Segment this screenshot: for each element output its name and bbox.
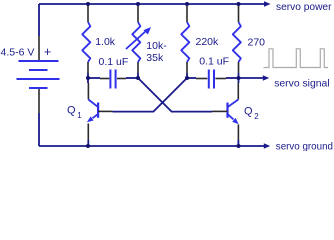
wire: C1 right to node B: [126, 77, 138, 79]
junction dot: rail / pot: [136, 2, 140, 6]
svg-text:Q: Q: [67, 104, 76, 116]
svg-text:+: +: [44, 45, 51, 59]
wire: Q1 emitter to ground rail: [87, 140, 89, 146]
svg-text:2: 2: [254, 112, 259, 121]
svg-text:servo signal: servo signal: [274, 79, 329, 90]
lead: capacitor C2 left pin: [196, 78, 207, 80]
waveform: servo pulse train: [264, 49, 329, 68]
transistor Q2 body: [228, 100, 239, 120]
lead: capacitor C1 right pin: [117, 78, 126, 80]
junction dot: node A: [86, 76, 90, 80]
lead: resistor R2 top pin: [186, 6, 188, 22]
battery B1 plates: [17, 61, 60, 88]
potentiometer 10k-35k zigzag: [132, 22, 140, 62]
lead: Q1 base pin: [98, 110, 112, 112]
arrow: servo power output: [264, 1, 271, 7]
potentiometer wiper arrow: [126, 31, 147, 50]
wire: Q2 emitter to ground rail: [237, 140, 239, 146]
junction dot: rail / R1: [86, 2, 90, 6]
wire: node A down to Q1 collector: [87, 78, 89, 83]
lead: Q1 emitter pin: [87, 124, 89, 141]
wire: node A to C1 left: [88, 77, 100, 79]
wire: battery positive riser: [38, 4, 40, 36]
lead: Q2 emitter pin: [237, 125, 239, 141]
transistor Q1 body: [88, 100, 98, 119]
wire: bottom ground rail: [39, 145, 264, 147]
lead: resistor R3 top pin: [238, 6, 240, 22]
resistor R1 1.0k zigzag: [82, 22, 90, 62]
capacitor C2 plates: [209, 70, 214, 89]
svg-text:270: 270: [248, 37, 266, 49]
wire: top power rail: [39, 3, 265, 5]
resistor R3 270 zigzag: [233, 22, 241, 62]
svg-text:servo ground: servo ground: [276, 141, 333, 151]
svg-text:1: 1: [77, 111, 82, 120]
wire: node C to C2 left: [187, 77, 196, 79]
lead: battery bottom pin: [38, 89, 40, 113]
svg-text:1.0k: 1.0k: [95, 36, 116, 48]
wire: node B cross-coupling diagonal to Q2 base: [138, 78, 212, 112]
svg-text:0.1 uF: 0.1 uF: [99, 56, 129, 68]
lead: potentiometer top pin: [137, 6, 139, 22]
svg-text:servo power: servo power: [276, 2, 332, 13]
wire: node C cross-coupling diagonal to Q1 base: [113, 78, 188, 112]
lead: potentiometer bottom pin: [137, 62, 139, 73]
svg-text:4.5-6 V: 4.5-6 V: [1, 47, 35, 59]
capacitor C1 plates: [110, 70, 115, 89]
lead: battery top pin: [38, 36, 40, 60]
junction dot: node C: [185, 76, 189, 80]
svg-text:35k: 35k: [146, 52, 164, 64]
wire: node D down to Q2 collector: [238, 78, 240, 83]
wire: servo signal tap from node D: [239, 77, 264, 79]
lead: capacitor C2 right pin: [215, 78, 226, 80]
resistor R2 220k zigzag: [181, 22, 189, 62]
transistor Q2 emitter arrowhead: [232, 118, 239, 124]
lead: resistor R1 top pin: [87, 6, 89, 22]
arrow: servo signal output: [263, 75, 269, 81]
svg-text:220k: 220k: [196, 36, 220, 48]
junction dot: ground / Q2 emitter: [237, 144, 241, 148]
svg-text:Q: Q: [244, 106, 253, 118]
lead: resistor R3 bottom pin: [238, 62, 240, 73]
lead: resistor R2 bottom pin: [186, 62, 188, 73]
wire: R3 to node D: [238, 73, 240, 78]
svg-text:0.1 uF: 0.1 uF: [199, 56, 229, 68]
svg-text:10k-: 10k-: [146, 40, 167, 52]
junction dot: rail / R2: [185, 2, 189, 6]
lead: resistor R1 bottom pin: [87, 62, 89, 73]
wire: pot to node B: [137, 73, 139, 78]
junction dot: node B: [136, 76, 140, 80]
wire: R2 to node C: [186, 73, 188, 78]
junction dot: node D: [237, 76, 241, 80]
arrow: servo ground output: [264, 143, 270, 149]
wire: R1 to node A: [87, 73, 89, 78]
lead: Q1 collector pin: [87, 83, 89, 100]
wire: C2 right to node D: [226, 77, 239, 79]
junction dot: rail / R3: [237, 2, 241, 6]
lead: Q2 collector pin: [237, 83, 239, 100]
junction dot: ground / Q1 emitter: [86, 144, 90, 148]
wire: battery negative to ground rail: [38, 113, 40, 146]
transistor Q1 emitter arrowhead: [87, 116, 94, 122]
lead: Q2 base pin: [212, 110, 228, 112]
lead: capacitor C1 left pin: [100, 78, 109, 80]
